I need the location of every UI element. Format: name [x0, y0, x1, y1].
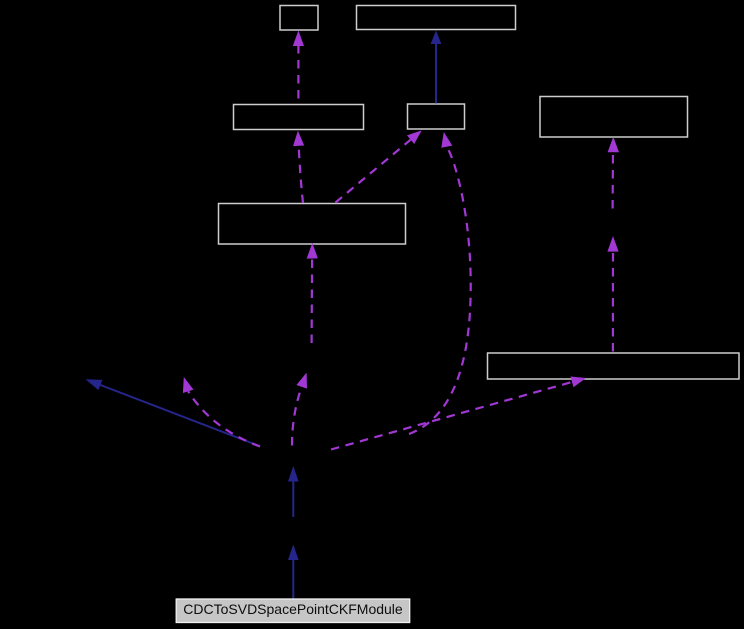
class box G (right lower wide)	[488, 353, 740, 379]
dashed usage edge hidden K to F	[307, 243, 318, 343]
solid inheritance edge module box to hidden I1	[288, 545, 299, 599]
dashed usage edge F to D	[336, 130, 422, 202]
class box C (row2 left)	[234, 105, 364, 130]
dashed usage long curved edge center node to D	[409, 132, 471, 434]
dashed usage edge G to hidden J	[607, 236, 618, 352]
dashed usage small curved edge center node to left	[183, 377, 260, 447]
class box F (row3 tall)	[219, 204, 406, 245]
dashed usage edge center node to hidden K	[292, 373, 307, 446]
class box B (top wide)	[357, 6, 516, 30]
solid inheritance edge center node to far left	[86, 379, 260, 446]
module box CDCToSVDSpacePointCKFModule	[176, 599, 410, 623]
class box E (row2 right tall)	[540, 97, 688, 138]
dashed usage edge C to A	[293, 31, 304, 104]
dashed usage edge F to C	[293, 131, 304, 203]
solid inheritance edge D to B	[431, 31, 442, 104]
dashed usage edge center node to G	[331, 377, 586, 450]
class box D (row2 small)	[408, 104, 465, 129]
solid inheritance edge hidden I1 to center node	[288, 466, 299, 517]
svg-text:CDCToSVDSpacePointCKFModule: CDCToSVDSpacePointCKFModule	[183, 601, 403, 617]
dashed usage edge hidden J to E	[608, 137, 619, 209]
class box A (top small)	[280, 6, 318, 31]
